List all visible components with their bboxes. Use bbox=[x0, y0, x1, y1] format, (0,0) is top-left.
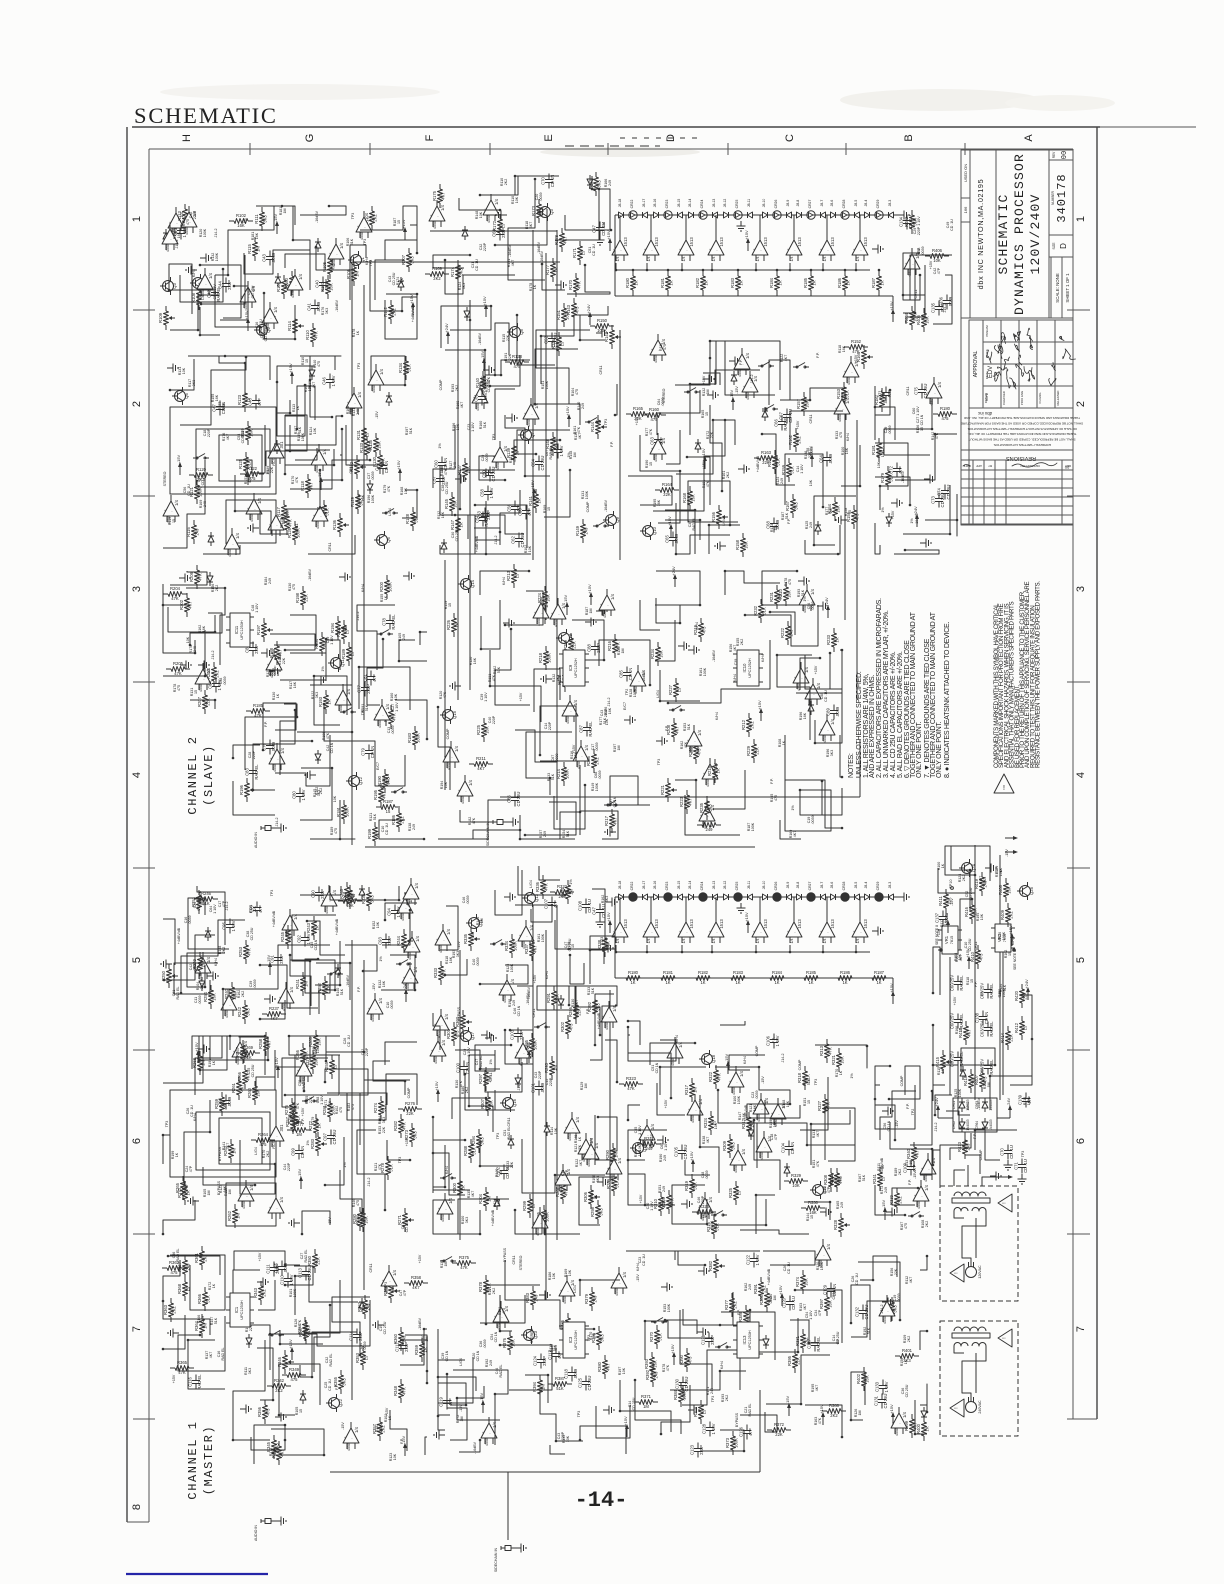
svg-text:CR23: CR23 bbox=[665, 882, 669, 891]
svg-text:+: + bbox=[644, 930, 646, 934]
svg-text:+15V: +15V bbox=[814, 665, 818, 674]
svg-text:2K2: 2K2 bbox=[465, 1087, 469, 1093]
svg-text:RAD/EL: RAD/EL bbox=[989, 983, 994, 999]
svg-text:15: 15 bbox=[515, 573, 520, 578]
op-amp IC5c bbox=[678, 240, 694, 255]
svg-text:AUDIO IN: AUDIO IN bbox=[254, 1525, 258, 1541]
op-amp IC62 bbox=[402, 968, 418, 983]
svg-text:1K: 1K bbox=[315, 925, 320, 930]
svg-text:TP3: TP3 bbox=[369, 260, 373, 267]
resistor R374 bbox=[802, 1270, 804, 1275]
capacitor C94 bbox=[394, 905, 396, 911]
svg-text:47K: 47K bbox=[326, 732, 330, 739]
svg-text:+: + bbox=[820, 248, 822, 252]
svg-text:47K: 47K bbox=[392, 713, 397, 721]
transformer T1 secondary bbox=[954, 1208, 968, 1211]
capacitor C129 bbox=[830, 1283, 832, 1289]
svg-text:+: + bbox=[743, 385, 745, 389]
svg-text:47K: 47K bbox=[314, 331, 319, 339]
resistor R159 bbox=[788, 458, 790, 463]
wire bbox=[163, 460, 205, 548]
resistor R290 bbox=[612, 1143, 614, 1148]
svg-text:R336: R336 bbox=[535, 881, 540, 892]
ground bbox=[661, 1286, 667, 1288]
svg-text:249: 249 bbox=[608, 180, 612, 186]
node junction bbox=[926, 1411, 929, 1414]
svg-text:475: 475 bbox=[663, 344, 667, 350]
svg-text:1 10V: 1 10V bbox=[395, 702, 399, 712]
node junction bbox=[416, 489, 419, 492]
resistor R183 bbox=[730, 977, 732, 979]
svg-text:R180: R180 bbox=[940, 406, 951, 411]
svg-text:R186: R186 bbox=[837, 277, 842, 288]
wire bbox=[675, 1251, 760, 1260]
diode J-pair 3a bbox=[687, 214, 689, 216]
op-amp IC64 bbox=[278, 988, 294, 1003]
wire bbox=[170, 295, 219, 330]
wire bbox=[327, 1093, 360, 1145]
ground bbox=[403, 575, 409, 577]
svg-text:R221: R221 bbox=[660, 784, 665, 795]
svg-text:7: 7 bbox=[1075, 1326, 1087, 1332]
node junction bbox=[339, 984, 342, 987]
svg-text:CD 1N: CD 1N bbox=[920, 414, 924, 425]
svg-text:!: ! bbox=[954, 1407, 960, 1408]
wire bbox=[809, 525, 840, 554]
svg-text:249: 249 bbox=[356, 409, 360, 415]
svg-text:1/4: 1/4 bbox=[446, 928, 451, 934]
svg-text:100K: 100K bbox=[510, 963, 514, 972]
svg-text:SCALE: NONE: SCALE: NONE bbox=[1055, 273, 1060, 303]
svg-text:J8-16: J8-16 bbox=[653, 881, 657, 890]
op-amp IC39 bbox=[374, 705, 390, 720]
op-amp IC41 bbox=[702, 764, 718, 779]
svg-text:4K7: 4K7 bbox=[575, 1000, 579, 1006]
svg-text:+15V: +15V bbox=[664, 1099, 668, 1108]
wire bbox=[290, 960, 335, 1014]
resistor R248 bbox=[346, 882, 348, 887]
power +15V bbox=[892, 313, 894, 322]
ground bbox=[882, 1301, 888, 1303]
svg-text:-16dBV: -16dBV bbox=[527, 986, 531, 999]
svg-text:47P: 47P bbox=[257, 398, 262, 406]
wire bbox=[805, 653, 830, 689]
svg-text:47K: 47K bbox=[402, 1122, 407, 1130]
node junction bbox=[644, 1320, 647, 1323]
svg-text:.0039: .0039 bbox=[485, 454, 489, 463]
resistor R349 bbox=[282, 1374, 287, 1376]
node junction bbox=[659, 700, 662, 703]
power -15V bbox=[884, 1211, 886, 1220]
power +15V bbox=[399, 472, 401, 481]
svg-text:R183: R183 bbox=[730, 277, 735, 288]
wire bbox=[458, 1199, 509, 1234]
wire bbox=[297, 386, 315, 429]
wire bbox=[884, 399, 932, 455]
resistor R367 bbox=[184, 1255, 186, 1260]
diode J-pair 1a bbox=[617, 896, 619, 898]
svg-text:51K: 51K bbox=[389, 1164, 394, 1172]
node junction bbox=[289, 412, 292, 415]
resistor R115 bbox=[254, 237, 256, 242]
node junction bbox=[509, 1029, 512, 1032]
resistor R205 bbox=[166, 668, 171, 670]
svg-text:R167: R167 bbox=[785, 500, 790, 511]
op-amp IC57 bbox=[397, 898, 413, 913]
node junction bbox=[932, 1024, 935, 1027]
wire bbox=[280, 639, 326, 680]
svg-text:100K: 100K bbox=[541, 933, 545, 942]
svg-text:4K7: 4K7 bbox=[606, 1363, 611, 1371]
resistor R361 bbox=[201, 1246, 203, 1251]
svg-text:1/4: 1/4 bbox=[650, 1123, 655, 1129]
svg-text:R372: R372 bbox=[774, 1422, 785, 1427]
wire bbox=[688, 481, 738, 525]
resistor R285 bbox=[294, 1107, 296, 1112]
trimmer R303 bbox=[462, 1010, 464, 1015]
svg-text:+: + bbox=[403, 976, 405, 980]
sidechain jack CH2 bbox=[497, 820, 503, 825]
op-amp IC68 bbox=[296, 1061, 312, 1076]
svg-text:220P: 220P bbox=[365, 1047, 369, 1056]
wire bbox=[628, 1155, 675, 1205]
node junction bbox=[616, 1081, 619, 1084]
svg-text:1/4: 1/4 bbox=[641, 669, 646, 675]
resistor R168 bbox=[689, 486, 691, 491]
svg-text:C: C bbox=[784, 134, 796, 142]
wire bbox=[975, 1218, 977, 1248]
resistor R411 bbox=[945, 889, 947, 894]
wire bbox=[515, 730, 557, 762]
resistor R264 bbox=[251, 1139, 256, 1141]
svg-text:+: + bbox=[163, 237, 165, 241]
svg-text:15: 15 bbox=[299, 1409, 303, 1413]
op-amp IC75 bbox=[555, 1170, 571, 1185]
trimmer R142 bbox=[611, 325, 613, 330]
wire bbox=[796, 650, 842, 693]
resistor R351 bbox=[278, 1441, 280, 1446]
wire bbox=[825, 1108, 855, 1161]
node junction bbox=[554, 1174, 557, 1177]
wire bridge frame bbox=[953, 1098, 997, 1132]
svg-text:J8-18: J8-18 bbox=[618, 199, 622, 208]
resistor R186 bbox=[837, 977, 839, 979]
svg-text:Q3: Q3 bbox=[172, 283, 177, 289]
svg-text:F.P.: F.P. bbox=[665, 725, 669, 731]
resistor R387 bbox=[548, 1383, 553, 1385]
node junction bbox=[510, 628, 513, 631]
resistor R177 bbox=[552, 258, 554, 263]
svg-text:R317: R317 bbox=[684, 1084, 689, 1095]
svg-text:1/4: 1/4 bbox=[289, 986, 294, 992]
svg-text:J14-2: J14-2 bbox=[175, 240, 179, 249]
resistor R134 bbox=[405, 356, 407, 361]
svg-text:E: E bbox=[543, 134, 555, 141]
wire bbox=[170, 1255, 225, 1310]
heatsink dot bbox=[1012, 948, 1016, 952]
svg-text:R276: R276 bbox=[405, 1101, 416, 1106]
wire bbox=[440, 501, 486, 554]
op-amp IC99 bbox=[559, 1281, 575, 1296]
wire bbox=[755, 945, 757, 952]
node junction bbox=[712, 419, 715, 422]
resistor R389 bbox=[745, 1305, 747, 1310]
capacitor C115 bbox=[281, 1261, 283, 1267]
capacitor C120 bbox=[789, 1296, 791, 1302]
svg-text:G: G bbox=[304, 134, 316, 143]
wire bbox=[188, 356, 270, 380]
svg-text:R182: R182 bbox=[695, 277, 700, 288]
node junction bbox=[294, 1106, 297, 1109]
node junction bbox=[514, 175, 517, 178]
svg-text:2K2: 2K2 bbox=[750, 721, 755, 729]
svg-text:1K: 1K bbox=[782, 740, 786, 745]
wire bbox=[282, 1055, 328, 1107]
wire loop CH2 low bbox=[226, 500, 276, 543]
wire bbox=[938, 868, 975, 893]
power -15V bbox=[320, 481, 322, 490]
wire bbox=[619, 215, 621, 240]
svg-text:47K: 47K bbox=[460, 1265, 468, 1270]
wire bbox=[304, 1280, 340, 1333]
svg-text:R374: R374 bbox=[795, 1276, 800, 1287]
svg-text:CR26: CR26 bbox=[774, 200, 778, 209]
node junction bbox=[894, 1139, 897, 1142]
svg-text:R199: R199 bbox=[367, 828, 372, 839]
svg-text:220P: 220P bbox=[320, 889, 325, 899]
svg-text:J14-2: J14-2 bbox=[211, 651, 215, 660]
resistor R112 bbox=[390, 300, 392, 305]
svg-text:C94: C94 bbox=[387, 907, 392, 915]
resistor R213 bbox=[513, 564, 515, 569]
svg-text:47K: 47K bbox=[402, 1387, 407, 1395]
wire bbox=[858, 1262, 900, 1315]
svg-text:3K3: 3K3 bbox=[838, 1176, 843, 1184]
svg-text:1513: 1513 bbox=[689, 919, 694, 929]
ground bbox=[891, 502, 897, 504]
resistor R227 bbox=[675, 678, 677, 683]
svg-text:CD 25U: CD 25U bbox=[445, 481, 449, 494]
resistor R380 bbox=[604, 1355, 606, 1360]
svg-text:4558: 4558 bbox=[838, 414, 842, 422]
svg-text:1/4: 1/4 bbox=[756, 939, 760, 944]
svg-text:249: 249 bbox=[593, 1295, 598, 1303]
wire bbox=[215, 206, 274, 275]
transistor Q6 bbox=[377, 535, 388, 546]
wire bbox=[851, 1301, 900, 1337]
capacitor C79 bbox=[368, 745, 370, 751]
svg-text:475: 475 bbox=[575, 306, 580, 314]
capacitor C137 bbox=[942, 911, 944, 917]
svg-text:R160: R160 bbox=[649, 407, 660, 412]
ground bbox=[597, 1181, 603, 1183]
svg-text:R294: R294 bbox=[471, 1135, 476, 1146]
svg-text:+24V: +24V bbox=[444, 323, 449, 333]
svg-text:+15V: +15V bbox=[635, 416, 639, 425]
node junction bbox=[568, 1004, 571, 1007]
svg-text:22K: 22K bbox=[316, 1257, 321, 1265]
node junction bbox=[743, 1450, 746, 1453]
svg-text:CR11: CR11 bbox=[295, 524, 299, 533]
node junction bbox=[329, 1304, 332, 1307]
svg-text:+: + bbox=[600, 603, 602, 607]
resistor R385 bbox=[567, 1313, 569, 1318]
svg-text:51K: 51K bbox=[790, 466, 795, 474]
svg-text:R245: R245 bbox=[280, 931, 285, 942]
svg-text:J14-2: J14-2 bbox=[750, 375, 754, 384]
svg-text:R356: R356 bbox=[257, 1406, 262, 1417]
wire bbox=[554, 785, 585, 829]
node junction bbox=[189, 644, 192, 647]
svg-text:4558: 4558 bbox=[690, 746, 694, 754]
svg-text:CR11: CR11 bbox=[349, 465, 353, 474]
svg-text:CD 25U: CD 25U bbox=[516, 792, 521, 807]
capacitor C111 bbox=[273, 1262, 275, 1268]
wire bbox=[859, 897, 861, 922]
svg-text:L/G4: L/G4 bbox=[254, 1147, 258, 1155]
svg-text:4K7: 4K7 bbox=[706, 1137, 710, 1143]
svg-text:CR11: CR11 bbox=[532, 1009, 536, 1018]
resistor R207 bbox=[204, 690, 206, 695]
resistor R192 bbox=[390, 705, 392, 710]
svg-text:J8-7: J8-7 bbox=[820, 882, 824, 889]
svg-text:-15V: -15V bbox=[457, 941, 461, 949]
resistor R253 bbox=[245, 940, 247, 945]
op-amp IC5a bbox=[612, 922, 628, 937]
svg-text:R179: R179 bbox=[880, 472, 885, 483]
wire bbox=[375, 260, 404, 300]
svg-text:1/4: 1/4 bbox=[616, 939, 620, 944]
ground bbox=[656, 740, 662, 742]
svg-text:CD 25U: CD 25U bbox=[455, 528, 459, 541]
trimmer R244 bbox=[403, 929, 405, 934]
ground bbox=[985, 867, 991, 869]
wire bus bbox=[351, 940, 353, 1400]
svg-text:1%: 1% bbox=[910, 518, 914, 524]
node junction bbox=[544, 1233, 547, 1236]
svg-text:+24V: +24V bbox=[913, 506, 918, 516]
svg-text:4K7: 4K7 bbox=[441, 192, 446, 200]
svg-text:+: + bbox=[404, 892, 406, 896]
resistor R338 bbox=[604, 933, 606, 938]
node junction bbox=[821, 780, 824, 783]
svg-text:1K: 1K bbox=[327, 699, 332, 704]
svg-text:4558: 4558 bbox=[605, 1022, 609, 1030]
svg-text:47P: 47P bbox=[553, 900, 558, 908]
resistor R334 bbox=[511, 934, 513, 939]
node junction bbox=[446, 1373, 449, 1376]
svg-text:16K: 16K bbox=[177, 231, 181, 238]
transistor Q10 bbox=[643, 526, 654, 537]
op-amp IC65 bbox=[321, 891, 337, 906]
op-amp IC73 bbox=[606, 1159, 622, 1174]
svg-text:CR11: CR11 bbox=[906, 387, 910, 396]
power +15V bbox=[747, 242, 749, 251]
ground bbox=[378, 1324, 384, 1326]
resistor R332 bbox=[550, 891, 555, 893]
svg-text:4K7: 4K7 bbox=[578, 433, 582, 439]
svg-text:CD 1N: CD 1N bbox=[550, 175, 555, 188]
resistor R391 bbox=[760, 1277, 762, 1282]
node junction bbox=[841, 1436, 844, 1439]
wire bbox=[405, 1335, 427, 1371]
svg-text:R151: R151 bbox=[556, 309, 561, 320]
svg-text:2K2: 2K2 bbox=[797, 436, 802, 444]
svg-text:C97: C97 bbox=[323, 1132, 328, 1140]
svg-text:R290: R290 bbox=[605, 1149, 610, 1160]
svg-text:4558: 4558 bbox=[760, 1152, 764, 1160]
resistor R236 bbox=[593, 749, 595, 754]
svg-text:R216: R216 bbox=[607, 640, 612, 651]
diode CR bbox=[765, 1335, 767, 1339]
wire bbox=[203, 545, 240, 554]
wire bus bbox=[430, 230, 557, 232]
ground bbox=[257, 1281, 263, 1283]
wire bbox=[340, 429, 342, 455]
svg-text:CR11: CR11 bbox=[369, 1264, 373, 1273]
svg-text:R258: R258 bbox=[258, 1038, 263, 1049]
svg-text:100K: 100K bbox=[734, 1438, 739, 1448]
node junction bbox=[199, 334, 202, 337]
resistor R193 bbox=[325, 690, 327, 695]
wire bbox=[681, 263, 683, 270]
svg-text:4558: 4558 bbox=[485, 1438, 489, 1446]
resistor R172 bbox=[499, 214, 501, 219]
svg-text:4558: 4558 bbox=[316, 521, 320, 529]
svg-text:1K: 1K bbox=[578, 1136, 582, 1141]
wire bbox=[271, 1429, 324, 1455]
svg-text:10K: 10K bbox=[313, 427, 317, 434]
svg-text:47K: 47K bbox=[387, 485, 391, 492]
svg-text:R293: R293 bbox=[544, 1062, 549, 1073]
node junction bbox=[524, 475, 527, 478]
resistor R418 bbox=[970, 1069, 972, 1074]
svg-text:249: 249 bbox=[780, 478, 784, 484]
transistor Q1 bbox=[351, 255, 362, 266]
resistor R131 bbox=[363, 423, 365, 428]
svg-text:1M: 1M bbox=[283, 209, 287, 214]
ground bbox=[820, 1211, 826, 1213]
wire bbox=[777, 655, 812, 740]
switch SW25 bbox=[715, 1346, 719, 1348]
wire bbox=[757, 1123, 855, 1168]
svg-text:15: 15 bbox=[194, 690, 198, 694]
resistor R395 bbox=[794, 1349, 796, 1354]
resistor R151 bbox=[563, 303, 565, 308]
node junction bbox=[199, 1069, 202, 1072]
wire bbox=[515, 1210, 542, 1234]
svg-text:1513: 1513 bbox=[654, 237, 659, 247]
resistor R401 bbox=[895, 1355, 900, 1357]
resistor R362 bbox=[162, 1267, 167, 1269]
node junction bbox=[262, 749, 265, 752]
capacitor C62 bbox=[957, 1052, 959, 1058]
op-amp IC12 bbox=[328, 244, 344, 259]
op-amp IC98 bbox=[493, 1307, 509, 1322]
svg-text:R214: R214 bbox=[556, 768, 561, 779]
svg-text:R335: R335 bbox=[463, 933, 468, 944]
capacitor C78 bbox=[389, 615, 391, 621]
resistor R228 bbox=[564, 668, 566, 673]
node junction bbox=[423, 838, 426, 841]
svg-text:10K: 10K bbox=[786, 1100, 790, 1107]
svg-text:+: + bbox=[794, 676, 796, 680]
svg-text:10K: 10K bbox=[394, 693, 398, 700]
svg-text:10K: 10K bbox=[444, 781, 448, 788]
resistor R238 bbox=[338, 900, 343, 902]
wire bbox=[316, 963, 350, 1000]
svg-text:1K: 1K bbox=[846, 280, 851, 285]
